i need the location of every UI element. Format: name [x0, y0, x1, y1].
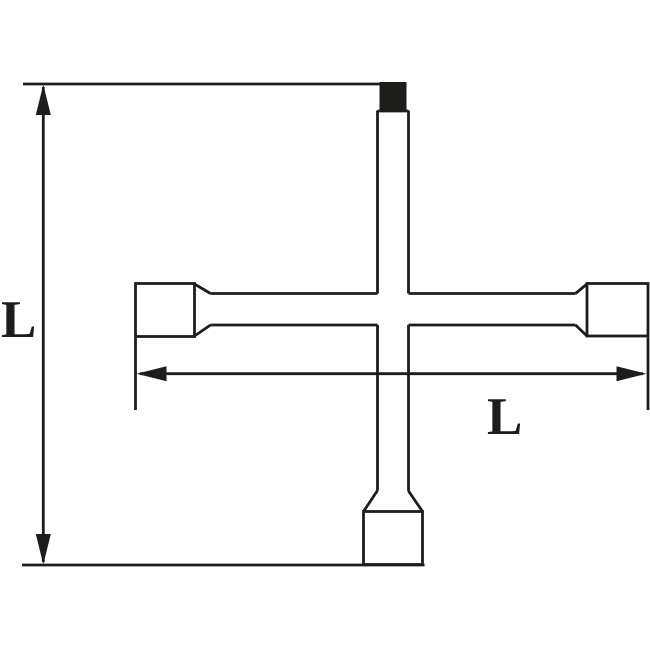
left extension line — [134, 338, 137, 410]
arm top edge left segment — [211, 292, 378, 295]
black drive cap — [380, 82, 407, 112]
shaft right edge upper — [407, 111, 410, 294]
shaft left edge upper — [376, 111, 379, 294]
horizontal dimension arrowhead right — [617, 366, 647, 381]
bottom extent line — [22, 564, 425, 567]
right socket flare top — [576, 284, 588, 294]
right extension line — [647, 338, 650, 411]
shaft shoulder at cap — [378, 110, 409, 113]
horizontal dimension line — [140, 372, 643, 375]
shaft left edge lower — [376, 325, 379, 491]
left socket box — [136, 284, 195, 337]
horizontal dimension arrowhead left — [137, 366, 167, 381]
bottom socket flare left — [364, 491, 378, 512]
arm bottom edge right segment — [409, 324, 576, 327]
arm top edge right segment — [409, 292, 576, 295]
left socket flare top — [195, 284, 211, 294]
left socket flare bottom — [195, 325, 211, 336]
right socket box — [587, 284, 648, 337]
top extent line — [23, 83, 406, 86]
svg-text:L: L — [1, 291, 36, 349]
vertical dimension arrowhead top — [36, 85, 51, 116]
shaft right edge lower — [407, 325, 410, 491]
vertical dimension line — [42, 87, 45, 562]
right socket flare bottom — [576, 325, 588, 336]
arm bottom edge left segment — [211, 324, 378, 327]
vertical dimension arrowhead bottom — [36, 534, 51, 565]
svg-text:L: L — [487, 388, 522, 446]
bottom socket box — [364, 512, 423, 565]
bottom socket flare right — [409, 491, 423, 512]
